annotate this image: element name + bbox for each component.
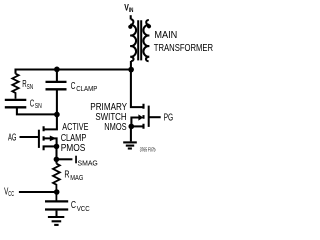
svg-text:C: C (71, 81, 76, 92)
svg-text:SN: SN (27, 82, 34, 91)
svg-text:IN: IN (129, 7, 134, 14)
svg-text:AG: AG (8, 132, 17, 143)
svg-text:SMAG: SMAG (78, 158, 99, 167)
svg-text:PG: PG (164, 112, 174, 123)
svg-text:NMOS: NMOS (104, 122, 126, 133)
svg-text:C: C (30, 99, 35, 110)
svg-text:MAIN: MAIN (154, 30, 177, 41)
svg-text:VCC: VCC (77, 204, 90, 213)
svg-text:SN: SN (35, 101, 42, 110)
svg-text:CC: CC (8, 189, 14, 198)
svg-text:MAG: MAG (70, 173, 83, 182)
svg-text:3765 F07b: 3765 F07b (140, 147, 156, 153)
svg-text:ACTIVE: ACTIVE (62, 122, 88, 133)
svg-text:TRANSFORMER: TRANSFORMER (154, 43, 213, 54)
svg-text:C: C (71, 200, 76, 211)
svg-text:CLAMP: CLAMP (76, 84, 97, 93)
svg-text:R: R (64, 169, 69, 180)
svg-text:PMOS: PMOS (61, 143, 86, 154)
